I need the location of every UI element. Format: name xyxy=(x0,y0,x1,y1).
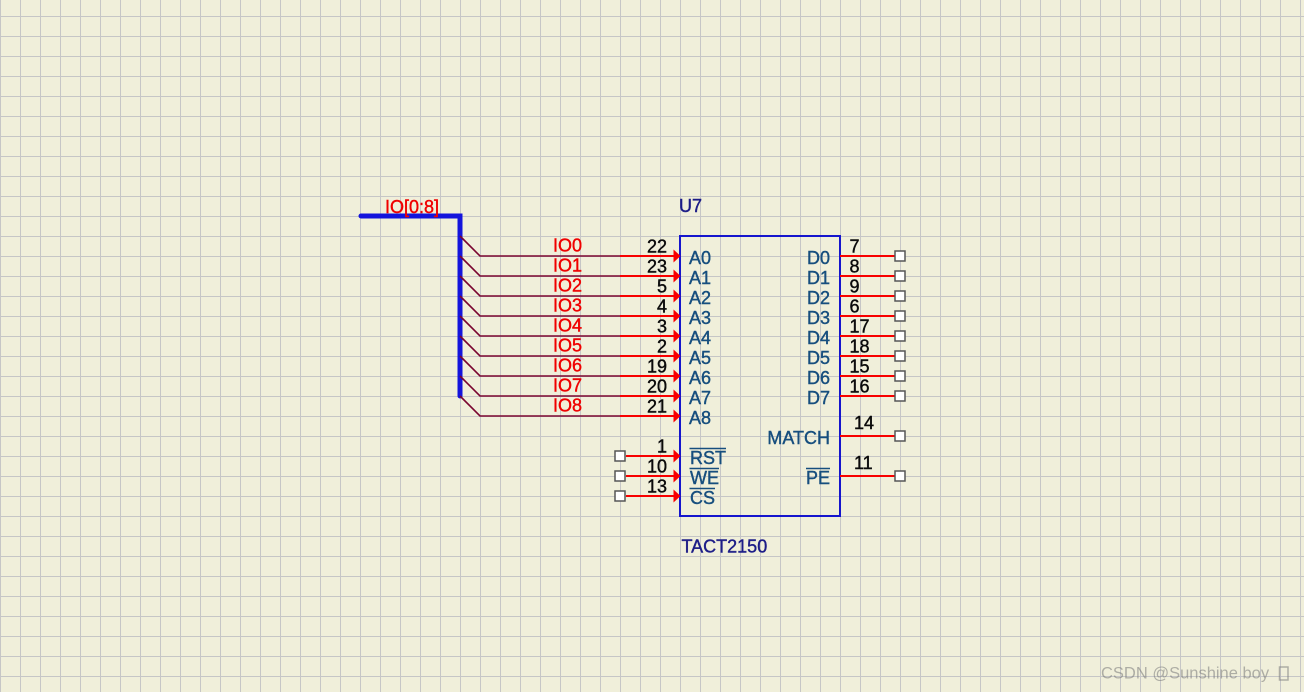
svg-text:D2: D2 xyxy=(807,288,830,308)
pin MATCH (output) of U7 xyxy=(840,435,895,437)
terminal square for pin CS xyxy=(615,491,625,501)
op-amp U7 TACT2150 chip body xyxy=(680,236,840,516)
svg-text:PE: PE xyxy=(806,468,830,488)
pin RST (input) of U7 xyxy=(626,450,681,463)
pin D6 (output) of U7 xyxy=(840,375,895,377)
pin name CS with overbar xyxy=(690,488,716,508)
svg-text:2: 2 xyxy=(657,337,667,357)
svg-text:IO2: IO2 xyxy=(553,276,582,296)
terminal square for pin PE xyxy=(895,471,905,481)
svg-text:IO5: IO5 xyxy=(553,336,582,356)
svg-text:A1: A1 xyxy=(689,268,711,288)
svg-text:IO4: IO4 xyxy=(553,316,582,336)
wire IO2 bus entry + horizontal segment xyxy=(460,276,620,296)
pin D2 (output) of U7 xyxy=(840,295,895,297)
wire IO1 bus entry + horizontal segment xyxy=(460,256,620,276)
terminal square for pin D1 xyxy=(895,271,905,281)
svg-text:A7: A7 xyxy=(689,388,711,408)
svg-text:WE: WE xyxy=(690,468,719,488)
svg-text:A6: A6 xyxy=(689,368,711,388)
wire IO4 bus entry + horizontal segment xyxy=(460,316,620,336)
pin A8 (input) of U7 xyxy=(620,410,681,423)
svg-text:D1: D1 xyxy=(807,268,830,288)
svg-text:13: 13 xyxy=(647,477,667,497)
svg-text:A3: A3 xyxy=(689,308,711,328)
svg-text:D4: D4 xyxy=(807,328,830,348)
svg-text:21: 21 xyxy=(647,397,667,417)
svg-text:MATCH: MATCH xyxy=(767,428,830,448)
svg-text:IO[0:8]: IO[0:8] xyxy=(385,197,439,217)
svg-text:17: 17 xyxy=(850,317,870,337)
pin A7 (input) of U7 xyxy=(620,390,681,403)
svg-text:6: 6 xyxy=(850,297,860,317)
pin PE (output) of U7 xyxy=(840,475,895,477)
wire IO6 bus entry + horizontal segment xyxy=(460,356,620,376)
svg-text:IO1: IO1 xyxy=(553,256,582,276)
svg-text:7: 7 xyxy=(850,237,860,257)
pin A2 (input) of U7 xyxy=(620,290,681,303)
pin D0 (output) of U7 xyxy=(840,255,895,257)
svg-text:A8: A8 xyxy=(689,408,711,428)
watermark CSDN @Sunshine boy xyxy=(1101,665,1288,683)
svg-text:IO0: IO0 xyxy=(553,236,582,256)
wire IO7 bus entry + horizontal segment xyxy=(460,376,620,396)
svg-text:3: 3 xyxy=(657,317,667,337)
terminal square for pin D6 xyxy=(895,371,905,381)
svg-text:IO7: IO7 xyxy=(553,376,582,396)
pin D4 (output) of U7 xyxy=(840,335,895,337)
pin A6 (input) of U7 xyxy=(620,370,681,383)
terminal square for pin D0 xyxy=(895,251,905,261)
svg-text:19: 19 xyxy=(647,357,667,377)
wire IO5 bus entry + horizontal segment xyxy=(460,336,620,356)
svg-text:CSDN @Sunshine boy: CSDN @Sunshine boy xyxy=(1101,665,1270,683)
svg-text:IO3: IO3 xyxy=(553,296,582,316)
svg-text:RST: RST xyxy=(690,448,726,468)
terminal square for pin WE xyxy=(615,471,625,481)
terminal square for pin D4 xyxy=(895,331,905,341)
pin D5 (output) of U7 xyxy=(840,355,895,357)
pin D3 (output) of U7 xyxy=(840,315,895,317)
svg-text:D3: D3 xyxy=(807,308,830,328)
terminal square for pin RST xyxy=(615,451,625,461)
pin A3 (input) of U7 xyxy=(620,310,681,323)
svg-text:IO6: IO6 xyxy=(553,356,582,376)
svg-text:20: 20 xyxy=(647,377,667,397)
svg-text:16: 16 xyxy=(850,377,870,397)
svg-text:A2: A2 xyxy=(689,288,711,308)
terminal square for pin D3 xyxy=(895,311,905,321)
pin name RST with overbar xyxy=(690,448,727,468)
pin name PE with overbar xyxy=(806,468,830,488)
pin A5 (input) of U7 xyxy=(620,350,681,363)
wire IO0 bus entry + horizontal segment xyxy=(460,236,620,256)
pin D7 (output) of U7 xyxy=(840,395,895,397)
svg-text:23: 23 xyxy=(647,257,667,277)
wire IO8 bus entry + horizontal segment xyxy=(460,396,620,416)
svg-text:9: 9 xyxy=(850,277,860,297)
svg-text:D6: D6 xyxy=(807,368,830,388)
svg-text:1: 1 xyxy=(657,437,667,457)
terminal square for pin MATCH xyxy=(895,431,905,441)
svg-text:5: 5 xyxy=(657,277,667,297)
svg-text:U7: U7 xyxy=(679,196,702,216)
pin WE (input) of U7 xyxy=(626,470,681,483)
svg-text:8: 8 xyxy=(850,257,860,277)
svg-text:A5: A5 xyxy=(689,348,711,368)
svg-text:CS: CS xyxy=(690,488,715,508)
pin D1 (output) of U7 xyxy=(840,275,895,277)
pin A4 (input) of U7 xyxy=(620,330,681,343)
pin A0 (input) of U7 xyxy=(620,250,681,263)
svg-text:A4: A4 xyxy=(689,328,711,348)
pin A1 (input) of U7 xyxy=(620,270,681,283)
svg-text:11: 11 xyxy=(854,453,873,473)
wire IO3 bus entry + horizontal segment xyxy=(460,296,620,316)
svg-text:22: 22 xyxy=(647,237,667,257)
terminal square for pin D2 xyxy=(895,291,905,301)
pin name WE with overbar xyxy=(690,468,720,488)
svg-text:15: 15 xyxy=(850,357,870,377)
pin CS (input) of U7 xyxy=(626,490,681,503)
svg-text:D7: D7 xyxy=(807,388,830,408)
svg-text:10: 10 xyxy=(647,457,667,477)
terminal square for pin D5 xyxy=(895,351,905,361)
terminal square for pin D7 xyxy=(895,391,905,401)
svg-text:14: 14 xyxy=(854,413,874,433)
svg-text:18: 18 xyxy=(850,337,870,357)
bus IO[0:8] xyxy=(361,216,460,396)
svg-text:A0: A0 xyxy=(689,248,711,268)
svg-text:IO8: IO8 xyxy=(553,396,582,416)
svg-text:D0: D0 xyxy=(807,248,830,268)
svg-text:TACT2150: TACT2150 xyxy=(682,537,768,557)
svg-text:D5: D5 xyxy=(807,348,830,368)
svg-text:4: 4 xyxy=(657,297,667,317)
